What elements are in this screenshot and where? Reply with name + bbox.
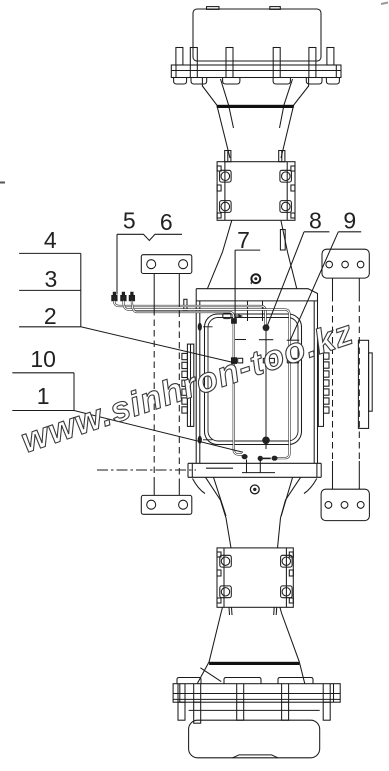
hub face line lower <box>189 709 320 711</box>
wall bolt center dashes <box>203 327 213 440</box>
U-bolt seats lower <box>220 555 292 597</box>
leader 2 <box>81 327 237 364</box>
callout box 4-3-2 <box>19 253 81 326</box>
leader 5 <box>116 234 118 294</box>
neck tabs upper <box>225 151 285 162</box>
drain plug <box>250 485 259 494</box>
callout numbers <box>30 208 356 410</box>
leader 1 <box>74 411 243 453</box>
wheel studs top <box>176 48 334 66</box>
stud lines through flange top <box>190 65 316 78</box>
housing lower taper <box>193 477 317 548</box>
left brake flange ribs <box>182 344 194 426</box>
spring seat block lower <box>217 548 293 607</box>
center stud line <box>258 324 271 472</box>
axle centerline left <box>97 469 196 471</box>
differential cover <box>205 301 302 445</box>
brake flange bar upper <box>217 105 294 108</box>
pinion flange plates right <box>358 340 372 428</box>
svg-text:7: 7 <box>237 227 250 253</box>
axle housing center <box>188 289 321 478</box>
breather vent <box>251 274 260 284</box>
U-bolt seats upper <box>220 170 292 212</box>
hub scallops top <box>174 78 340 85</box>
leader 7 <box>235 250 260 318</box>
brake pipes manifold <box>112 292 135 300</box>
brake pipe A <box>114 301 265 326</box>
leader 9 <box>290 232 361 340</box>
spring bracket lower left <box>141 495 192 514</box>
spring bracket upper left <box>141 255 192 274</box>
pipe B end blob <box>272 456 278 461</box>
svg-text:8: 8 <box>309 208 322 234</box>
svg-text:1: 1 <box>37 383 50 409</box>
hub flange top <box>171 65 341 78</box>
svg-text:2: 2 <box>44 303 57 329</box>
tee fitting on leader line <box>232 319 237 324</box>
U-bolt lines left <box>154 274 179 496</box>
svg-text:6: 6 <box>160 209 173 235</box>
pipe clamps row <box>232 358 299 364</box>
axle tube lower taper <box>197 607 305 683</box>
svg-text:5: 5 <box>123 208 136 234</box>
svg-text:3: 3 <box>45 266 58 292</box>
housing wall bolts <box>198 323 202 444</box>
svg-text:4: 4 <box>44 227 57 253</box>
axle tube above housing <box>207 220 296 288</box>
spring seat block upper <box>217 162 295 221</box>
page corner mark <box>381 3 388 5</box>
pipe tick marks <box>235 339 299 342</box>
brake pipe B <box>123 301 289 459</box>
svg-text:9: 9 <box>343 208 356 234</box>
stud lines through flange lower <box>178 684 330 703</box>
wheel drum top <box>193 7 321 61</box>
callout box 10-1 <box>12 373 74 411</box>
spring bracket lower right <box>321 489 369 520</box>
wheel studs lower <box>178 702 330 723</box>
bottom pipe bracket lines <box>206 460 275 473</box>
left margin tick <box>0 182 5 184</box>
U-bolt lines right <box>333 278 360 489</box>
axle tube upper taper <box>202 78 308 158</box>
brake flange bar lower <box>209 662 299 665</box>
hub flange lower castellations <box>177 678 313 684</box>
right brake flange ribs <box>318 344 329 426</box>
wheel drum bottom <box>189 720 320 758</box>
spring bracket upper right <box>322 249 369 278</box>
brake hose C <box>132 301 248 460</box>
leader 8 <box>268 232 330 325</box>
svg-text:10: 10 <box>30 346 56 372</box>
pipe clamp at housing wall <box>184 299 187 311</box>
brace 5-6 <box>117 234 182 240</box>
hub flange lower <box>173 684 340 703</box>
